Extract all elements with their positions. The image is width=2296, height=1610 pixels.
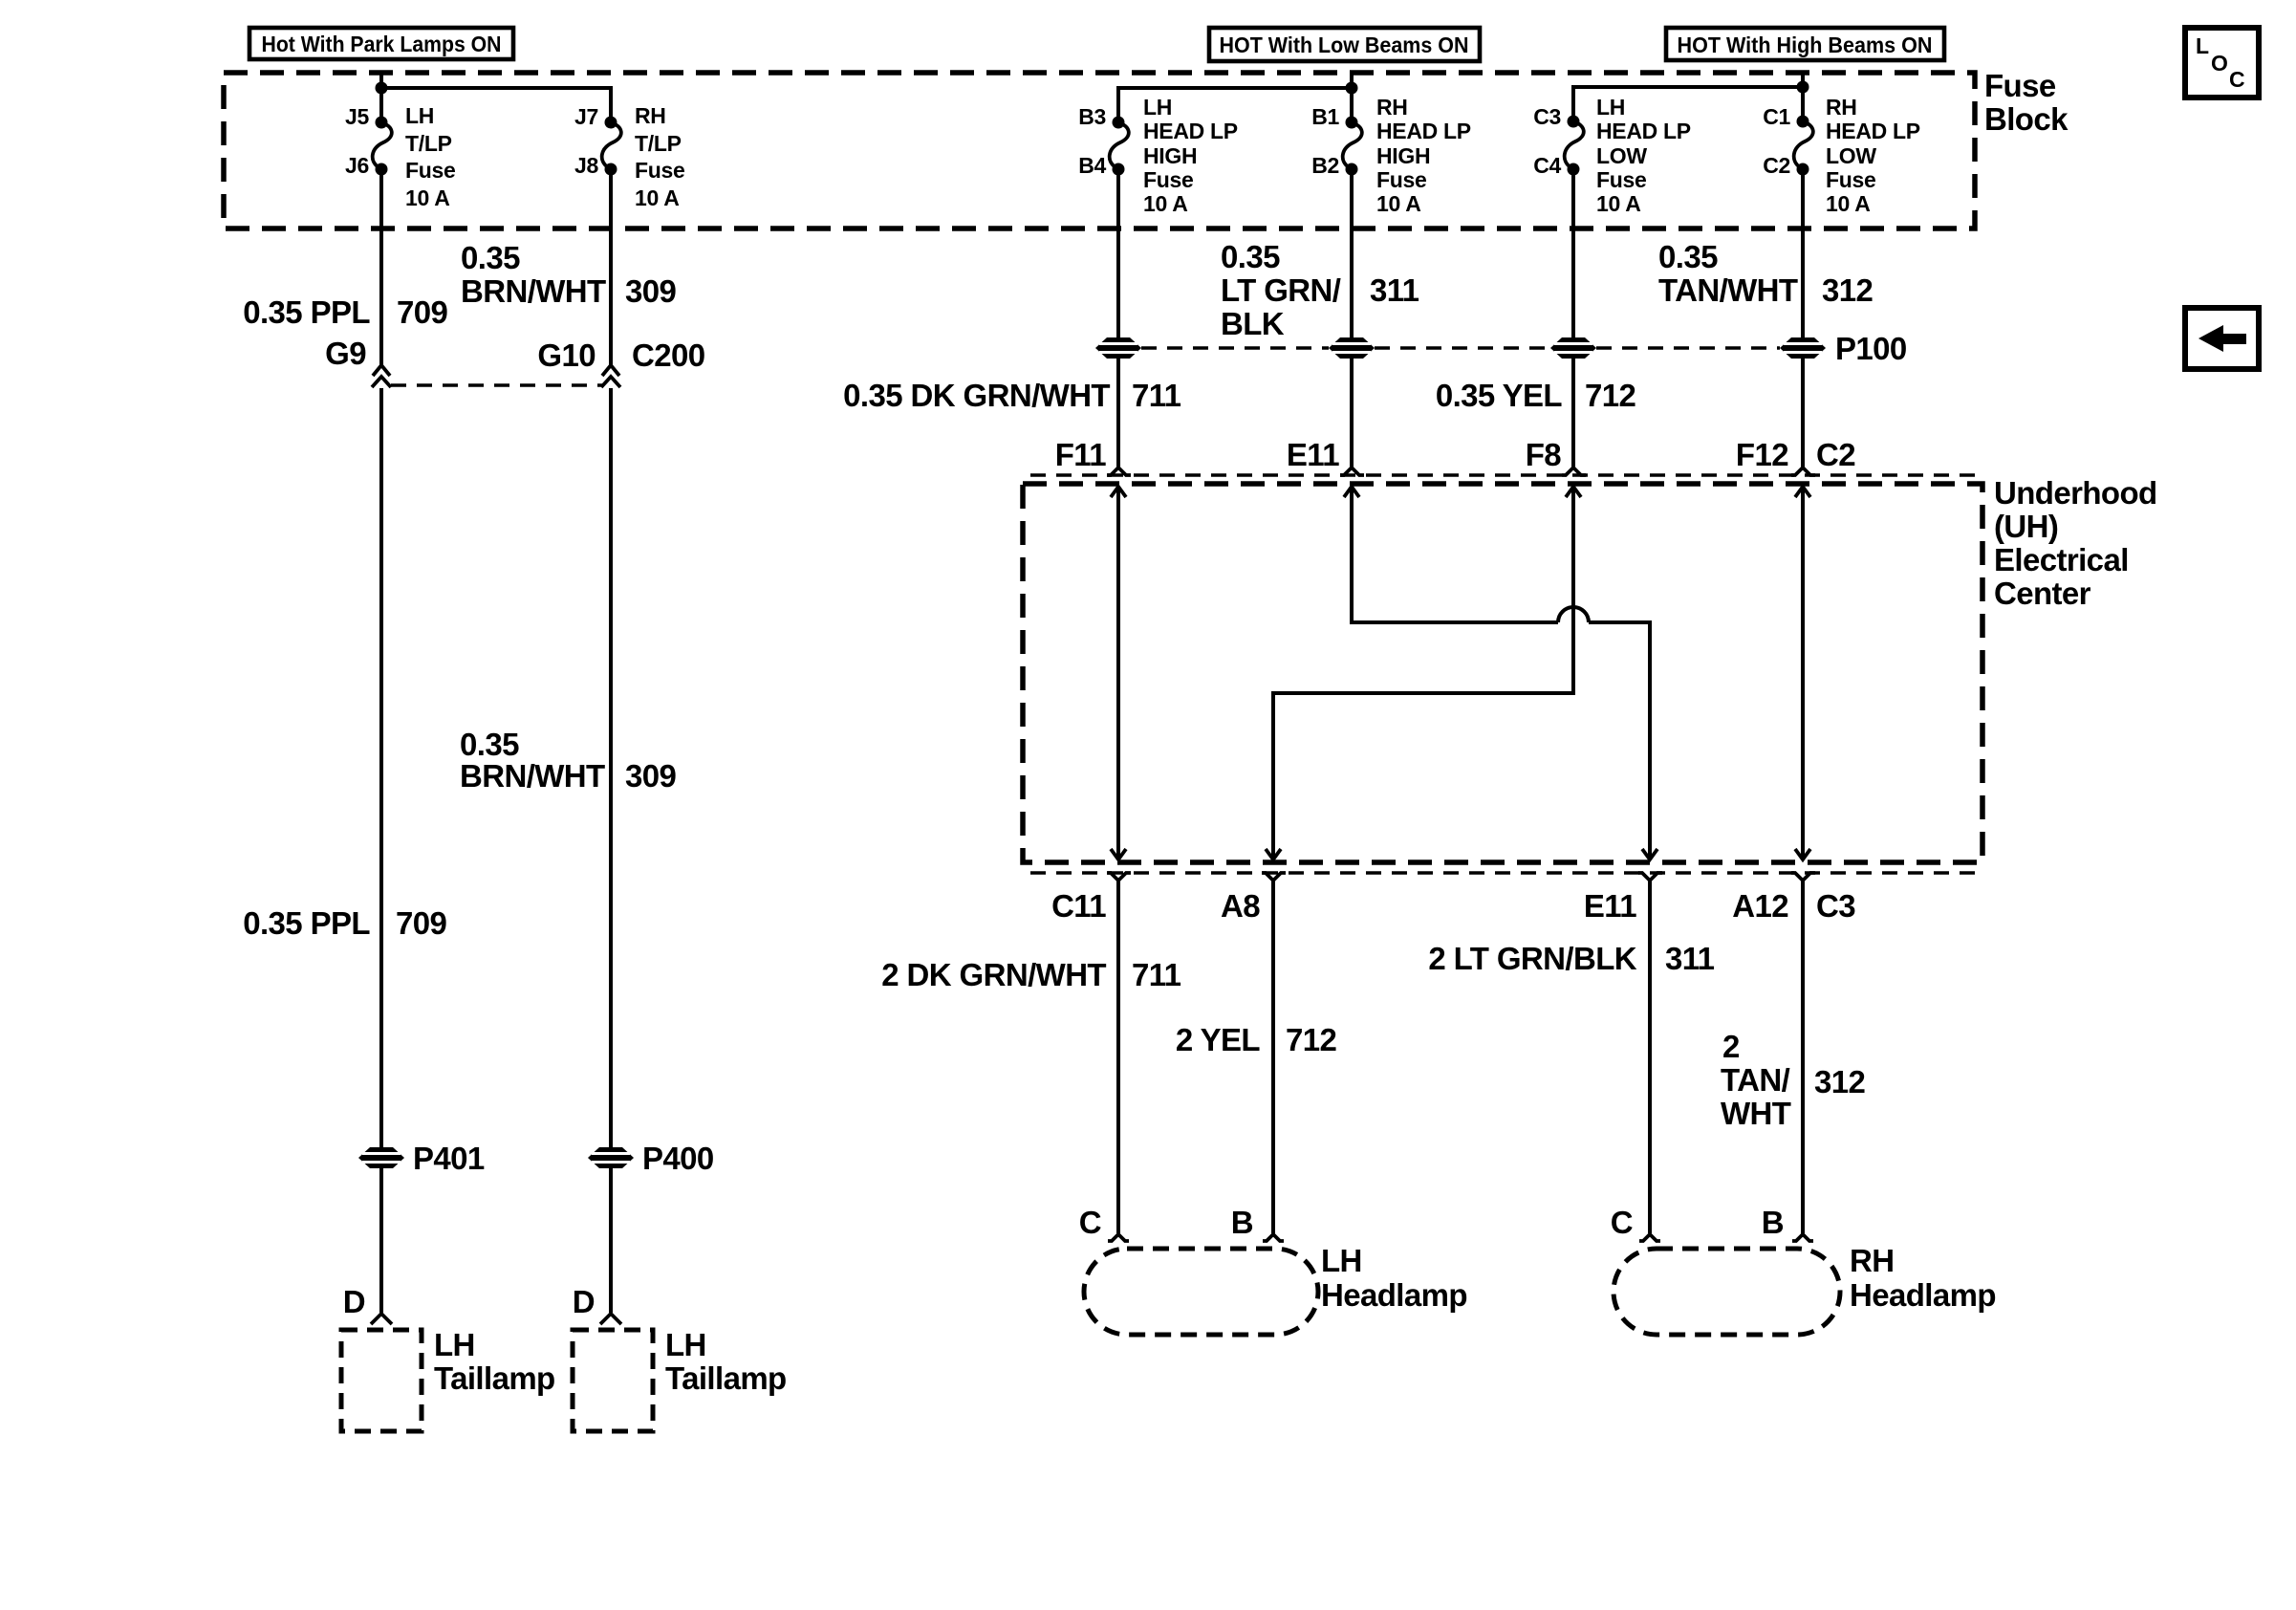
label 2 TAN/WHT 312 xyxy=(1721,1029,1866,1131)
LH headlamp outline xyxy=(1084,1243,1467,1335)
svg-text:BRN/WHT: BRN/WHT xyxy=(461,273,606,309)
wire 311 lower xyxy=(1350,359,1354,468)
svg-text:C3: C3 xyxy=(1816,888,1855,924)
wire 711 to LH headlamp C xyxy=(1116,881,1120,1233)
RH headlamp pin B xyxy=(1762,1205,1813,1241)
down arrow D xyxy=(1795,849,1810,859)
UH inside wire C (F8-A8) xyxy=(1273,487,1573,859)
wire: 709 PPL down from J6 xyxy=(379,169,383,365)
svg-text:B1: B1 xyxy=(1311,104,1339,129)
connector disc 1 xyxy=(1095,337,1141,359)
svg-text:312: 312 xyxy=(1814,1064,1866,1099)
svg-text:0.35: 0.35 xyxy=(461,240,520,275)
svg-text:HEAD LP: HEAD LP xyxy=(1376,119,1471,143)
UH bottom pin labels xyxy=(1051,888,1855,924)
wire: park lamps supply stub xyxy=(379,71,383,88)
svg-text:P400: P400 xyxy=(642,1141,714,1176)
wire 712 to LH headlamp B xyxy=(1271,881,1275,1233)
svg-text:Fuse: Fuse xyxy=(1143,167,1193,192)
wire: 309 BRN/WHT down from J8 xyxy=(609,169,613,365)
svg-text:C3: C3 xyxy=(1533,104,1561,129)
label 0.35 YEL 712 xyxy=(1436,378,1636,413)
svg-text:2 LT GRN/BLK: 2 LT GRN/BLK xyxy=(1428,941,1636,976)
svg-text:(UH): (UH) xyxy=(1994,509,2058,544)
fuse J7/J8 RH T/LP xyxy=(574,103,684,210)
svg-text:C: C xyxy=(2229,67,2245,92)
UH bottom thin dashed line xyxy=(1030,871,1975,874)
UH top pin labels xyxy=(1055,437,1855,472)
svg-text:C2: C2 xyxy=(1763,153,1790,178)
svg-text:Fuse: Fuse xyxy=(1596,167,1646,192)
svg-text:A8: A8 xyxy=(1221,888,1260,924)
svg-text:2: 2 xyxy=(1722,1029,1740,1064)
UH label xyxy=(1994,475,2157,611)
label 0.35 PPL 709 (mid) xyxy=(243,905,446,941)
svg-text:D: D xyxy=(573,1284,595,1319)
wire: low beam horizontal xyxy=(1118,88,1352,122)
svg-text:HEAD LP: HEAD LP xyxy=(1143,119,1238,143)
svg-text:C1: C1 xyxy=(1763,104,1790,129)
svg-text:TAN/WHT: TAN/WHT xyxy=(1658,272,1798,308)
svg-text:LH: LH xyxy=(1321,1243,1362,1278)
connector P400 xyxy=(588,1141,714,1176)
label 0.35 BRN/WHT 309 (upper) xyxy=(461,240,677,309)
wire: C1 stub xyxy=(1801,87,1805,121)
svg-text:Underhood: Underhood xyxy=(1994,475,2157,511)
svg-text:HOT With High Beams ON: HOT With High Beams ON xyxy=(1678,33,1933,57)
svg-text:0.35: 0.35 xyxy=(1658,239,1718,274)
svg-text:10 A: 10 A xyxy=(635,185,680,210)
UH bottom boundary chevrons xyxy=(1107,873,1131,881)
svg-text:LOW: LOW xyxy=(1826,143,1876,168)
wire 711 xyxy=(1116,169,1120,337)
wire: 309 BRN/WHT continue xyxy=(609,388,613,1147)
svg-text:TAN/: TAN/ xyxy=(1721,1062,1790,1098)
svg-text:HEAD LP: HEAD LP xyxy=(1596,119,1691,143)
header box: HOT With High Beams ON xyxy=(1666,28,1944,60)
svg-text:B2: B2 xyxy=(1311,153,1339,178)
connector G10 / C200 xyxy=(537,337,704,387)
svg-text:HIGH: HIGH xyxy=(1143,143,1197,168)
svg-text:Center: Center xyxy=(1994,576,2091,611)
connector disc 3 xyxy=(1550,337,1596,359)
header box: HOT With Low Beams ON xyxy=(1209,28,1480,61)
svg-text:C11: C11 xyxy=(1051,888,1106,924)
pin D LH taillamp xyxy=(343,1284,392,1324)
svg-text:LH: LH xyxy=(405,103,434,128)
svg-text:309: 309 xyxy=(625,758,677,794)
fuse block label xyxy=(1984,68,2069,137)
svg-text:LT GRN/: LT GRN/ xyxy=(1221,272,1341,308)
wire: low beam supply stub xyxy=(1350,71,1354,88)
UH inside wire B (E11-E11) xyxy=(1352,487,1558,622)
wire 312 to RH headlamp B xyxy=(1801,881,1805,1233)
svg-text:O: O xyxy=(2211,51,2228,76)
label 0.35 DK GRN/WHT 711 xyxy=(843,378,1181,413)
svg-text:T/LP: T/LP xyxy=(405,131,452,156)
svg-text:WHT: WHT xyxy=(1721,1096,1791,1131)
svg-text:0.35 PPL: 0.35 PPL xyxy=(243,905,370,941)
svg-text:P100: P100 xyxy=(1835,331,1907,366)
connector disc 2 xyxy=(1329,337,1375,359)
svg-text:G9: G9 xyxy=(325,336,366,371)
fuse C3/C4 LH HEAD LP LOW xyxy=(1533,95,1691,216)
svg-text:HOT With Low Beams ON: HOT With Low Beams ON xyxy=(1220,33,1469,57)
wire 712 lower xyxy=(1571,359,1575,468)
LH headlamp pin B xyxy=(1231,1205,1284,1241)
svg-text:0.35 DK GRN/WHT: 0.35 DK GRN/WHT xyxy=(843,378,1110,413)
wire 712 xyxy=(1571,169,1575,337)
down arrow B xyxy=(1642,849,1657,859)
back arrow box xyxy=(2185,308,2259,369)
fuse B1/B2 RH HEAD LP HIGH xyxy=(1311,95,1471,216)
svg-text:Hot With Park Lamps ON: Hot With Park Lamps ON xyxy=(262,32,502,56)
wire: J5 stub xyxy=(379,88,383,122)
svg-text:BLK: BLK xyxy=(1221,306,1285,341)
label 0.35 TAN/WHT 312 xyxy=(1658,239,1874,308)
label 2 LT GRN/BLK 311 xyxy=(1428,941,1714,976)
svg-text:Fuse: Fuse xyxy=(405,158,455,183)
svg-text:RH: RH xyxy=(1826,95,1857,120)
svg-text:T/LP: T/LP xyxy=(635,131,682,156)
connector G9 xyxy=(325,336,391,387)
RH headlamp outline xyxy=(1614,1243,1996,1335)
svg-text:A12: A12 xyxy=(1732,888,1788,924)
svg-text:0.35: 0.35 xyxy=(460,727,519,762)
svg-text:D: D xyxy=(343,1284,365,1319)
svg-text:C2: C2 xyxy=(1816,437,1855,472)
svg-text:2 YEL: 2 YEL xyxy=(1176,1022,1261,1057)
svg-text:J7: J7 xyxy=(574,104,598,129)
wire 311 to RH headlamp C xyxy=(1648,881,1652,1233)
svg-text:HEAD LP: HEAD LP xyxy=(1826,119,1920,143)
svg-text:RH: RH xyxy=(1376,95,1408,120)
svg-text:10 A: 10 A xyxy=(1143,191,1188,216)
wire: high beam horizontal xyxy=(1573,87,1803,121)
down arrow C xyxy=(1266,849,1281,859)
svg-text:LH: LH xyxy=(434,1327,475,1362)
svg-text:F11: F11 xyxy=(1055,437,1106,472)
svg-text:10 A: 10 A xyxy=(405,185,450,210)
wire: 709 PPL continue xyxy=(379,388,383,1147)
LH headlamp pin C xyxy=(1079,1205,1129,1241)
svg-text:BRN/WHT: BRN/WHT xyxy=(460,758,605,794)
svg-text:C: C xyxy=(1079,1205,1101,1240)
svg-text:J5: J5 xyxy=(345,104,369,129)
svg-text:B3: B3 xyxy=(1078,104,1106,129)
svg-text:G10: G10 xyxy=(537,337,596,373)
svg-text:Fuse: Fuse xyxy=(1826,167,1875,192)
svg-text:Headlamp: Headlamp xyxy=(1321,1277,1467,1313)
wire 312 lower xyxy=(1801,359,1805,468)
RH headlamp pin C xyxy=(1611,1205,1660,1241)
up arrow A xyxy=(1111,487,1126,497)
svg-text:P401: P401 xyxy=(413,1141,485,1176)
svg-text:0.35: 0.35 xyxy=(1221,239,1280,274)
svg-text:B4: B4 xyxy=(1078,153,1106,178)
fuse J5/J6 LH T/LP xyxy=(345,103,455,210)
svg-text:712: 712 xyxy=(1585,378,1636,413)
svg-text:311: 311 xyxy=(1665,941,1715,976)
svg-text:Headlamp: Headlamp xyxy=(1850,1277,1996,1313)
svg-text:Taillamp: Taillamp xyxy=(665,1360,787,1396)
svg-text:711: 711 xyxy=(1132,957,1181,992)
svg-text:712: 712 xyxy=(1286,1022,1337,1057)
RH (labeled LH) taillamp box xyxy=(573,1327,787,1431)
wire to RH taillamp wire xyxy=(609,1168,613,1313)
label 2 DK GRN/WHT 711 xyxy=(881,957,1180,992)
wire: high beam supply stub xyxy=(1801,71,1805,87)
svg-text:Fuse: Fuse xyxy=(1984,68,2056,103)
LOC box xyxy=(2185,28,2259,98)
UH electrical center dashed box xyxy=(1023,484,1982,862)
svg-text:B: B xyxy=(1762,1205,1784,1240)
svg-text:LH: LH xyxy=(1143,95,1172,120)
label 0.35 LT GRN/BLK 311 xyxy=(1221,239,1419,341)
svg-text:RH: RH xyxy=(635,103,666,128)
svg-text:L: L xyxy=(2196,33,2209,58)
svg-text:C200: C200 xyxy=(632,337,705,373)
svg-text:Fuse: Fuse xyxy=(1376,167,1426,192)
dashed line G9-G10 xyxy=(391,383,602,386)
fuse block dashed box xyxy=(224,73,1975,228)
node: high beam junction xyxy=(1797,81,1809,94)
svg-text:LOW: LOW xyxy=(1596,143,1647,168)
connector disc 4 P100 xyxy=(1780,331,1907,366)
label 0.35 PPL 709 (upper) xyxy=(243,294,447,330)
svg-text:Electrical: Electrical xyxy=(1994,542,2129,577)
svg-text:Block: Block xyxy=(1984,101,2069,137)
up arrow C xyxy=(1566,487,1581,497)
svg-text:10 A: 10 A xyxy=(1596,191,1641,216)
down arrow A xyxy=(1111,849,1126,859)
connector P401 xyxy=(358,1141,485,1176)
svg-text:B: B xyxy=(1231,1205,1253,1240)
svg-text:F12: F12 xyxy=(1736,437,1788,472)
wire: B1 stub xyxy=(1350,88,1354,122)
svg-text:711: 711 xyxy=(1132,378,1181,413)
svg-text:709: 709 xyxy=(396,905,447,941)
svg-text:E11: E11 xyxy=(1584,888,1636,924)
svg-text:LH: LH xyxy=(665,1327,706,1362)
svg-text:10 A: 10 A xyxy=(1376,191,1421,216)
dashed line P100 row xyxy=(1141,346,1329,349)
svg-text:10 A: 10 A xyxy=(1826,191,1871,216)
wire to LH taillamp xyxy=(379,1168,383,1313)
fuse C1/C2 RH HEAD LP LOW xyxy=(1763,95,1920,216)
label 0.35 BRN/WHT 309 (mid) xyxy=(460,727,677,794)
svg-text:LH: LH xyxy=(1596,95,1625,120)
svg-text:F8: F8 xyxy=(1526,437,1562,472)
svg-text:311: 311 xyxy=(1370,272,1419,308)
header box: Hot With Park Lamps ON xyxy=(249,28,513,59)
svg-text:Taillamp: Taillamp xyxy=(434,1360,555,1396)
up arrow B xyxy=(1344,487,1359,497)
svg-text:C4: C4 xyxy=(1533,153,1561,178)
svg-text:HIGH: HIGH xyxy=(1376,143,1430,168)
fuse B3/B4 LH HEAD LP HIGH xyxy=(1078,95,1238,216)
svg-text:Fuse: Fuse xyxy=(635,158,684,183)
wire: park supply horizontal to RH fuse xyxy=(381,88,611,122)
svg-text:0.35 PPL: 0.35 PPL xyxy=(243,294,370,330)
svg-text:J8: J8 xyxy=(574,153,598,178)
up arrow D xyxy=(1795,487,1810,497)
svg-text:E11: E11 xyxy=(1287,437,1339,472)
svg-text:J6: J6 xyxy=(345,153,369,178)
svg-text:C: C xyxy=(1611,1205,1633,1240)
pin D RH taillamp xyxy=(573,1284,621,1324)
svg-text:709: 709 xyxy=(397,294,448,330)
UH top thin dashed line xyxy=(1030,473,1975,476)
svg-text:2 DK GRN/WHT: 2 DK GRN/WHT xyxy=(881,957,1106,992)
svg-text:RH: RH xyxy=(1850,1243,1894,1278)
node: park supply junction xyxy=(376,82,388,95)
wire 311 xyxy=(1350,169,1354,337)
UH inside wire A (F11-C11) xyxy=(1116,487,1120,859)
UH inside wire D (C2-C3) xyxy=(1801,487,1805,859)
node: low beam junction xyxy=(1346,82,1358,95)
svg-text:309: 309 xyxy=(625,273,677,309)
wire 711 lower xyxy=(1116,359,1120,468)
label 2 YEL 712 xyxy=(1176,1022,1337,1057)
wire 312 xyxy=(1801,169,1805,337)
UH top boundary chevrons xyxy=(1107,468,1131,475)
svg-text:0.35 YEL: 0.35 YEL xyxy=(1436,378,1563,413)
LH taillamp box xyxy=(341,1327,555,1431)
svg-text:312: 312 xyxy=(1822,272,1874,308)
